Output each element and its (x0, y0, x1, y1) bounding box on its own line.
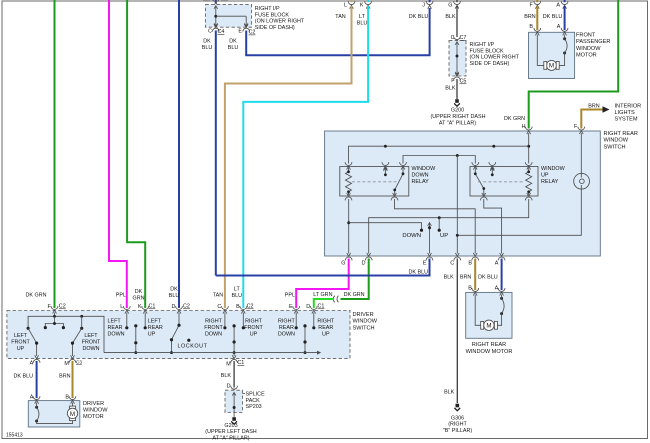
driver switch pin E (293, 306, 300, 314)
fuse1 internal branch wire (216, 15, 246, 17)
svg-text:DK GRN: DK GRN (26, 293, 47, 299)
svg-text:DK GRN: DK GRN (504, 116, 525, 122)
svg-text:DK BLU: DK BLU (409, 270, 429, 276)
rear switch pin A (498, 253, 505, 261)
fuse block 2 name label (470, 42, 520, 67)
svg-text:D: D (227, 383, 231, 389)
driver window motor label (83, 401, 108, 420)
passenger motor M symbol (544, 60, 559, 70)
svg-text:WINDOW: WINDOW (576, 46, 601, 52)
svg-text:LEFT: LEFT (84, 333, 98, 339)
svg-text:RIGHT REAR: RIGHT REAR (604, 131, 638, 137)
wire LT GRN inline connector to driver switch pin D (314, 299, 334, 308)
passenger motor brush arc (563, 37, 566, 40)
svg-text:WINDOW MOTOR: WINDOW MOTOR (466, 349, 513, 355)
svg-text:L: L (344, 2, 347, 8)
up relay coil (526, 168, 532, 196)
svg-text:INTERIOR: INTERIOR (615, 103, 642, 109)
front passenger window motor box (529, 32, 575, 78)
svg-text:C1: C1 (318, 304, 325, 310)
rear switch pin H (525, 127, 532, 135)
front passenger window motor label (576, 32, 610, 58)
svg-text:DOWN: DOWN (412, 173, 429, 179)
driver switch pin D2 / C1 (310, 306, 317, 314)
svg-text:RIGHT I/P: RIGHT I/P (470, 42, 495, 48)
svg-text:PASSENGER: PASSENGER (576, 39, 610, 45)
svg-text:C2: C2 (59, 304, 66, 310)
svg-text:LT GRN: LT GRN (313, 292, 332, 298)
down relay terminal pins top (345, 162, 352, 170)
svg-text:DOWN: DOWN (108, 331, 125, 337)
svg-text:SWITCH: SWITCH (604, 144, 626, 150)
svg-text:LEFT: LEFT (14, 333, 28, 339)
svg-text:UP: UP (440, 233, 448, 239)
svg-text:(ON LOWER RIGHT: (ON LOWER RIGHT (470, 55, 520, 61)
driver switch pin M bottom / C3 (69, 355, 76, 363)
driver motor pin B internal wire (72, 403, 74, 407)
wire PPL from top edge jog to driver switch pin L (109, 0, 127, 308)
svg-text:BRN: BRN (460, 275, 471, 281)
wire BLK fuse2 to ground G200 (456, 79, 458, 99)
svg-text:DOWN: DOWN (278, 331, 295, 337)
arrow to interior lights system (603, 106, 610, 112)
wire UP contact stub (438, 218, 440, 229)
svg-text:AT "A" PILLAR): AT "A" PILLAR) (212, 435, 249, 441)
svg-text:LEFT: LEFT (148, 318, 162, 324)
svg-text:FRONT: FRONT (244, 325, 263, 331)
ground G203 (231, 417, 237, 424)
svg-text:LT: LT (234, 287, 241, 293)
svg-text:WINDOW: WINDOW (83, 408, 108, 414)
rear motor brush arc (500, 297, 503, 300)
svg-text:B: B (468, 285, 472, 291)
svg-text:A: A (495, 261, 499, 267)
svg-text:BLK: BLK (221, 373, 232, 379)
up relay mechanical link (478, 181, 524, 183)
wire lamp bottom to C riser (457, 185, 581, 235)
right rear window motor box (466, 292, 512, 338)
wire BLK from G to fuse2 pin C (456, 6, 458, 37)
wire DK GRN from top edge right side to rear switch pin H (529, 0, 619, 129)
right rear up contact (313, 313, 315, 328)
svg-text:C1: C1 (237, 360, 244, 366)
wire up relay output to pin A (484, 199, 502, 254)
splice pack label (246, 392, 266, 411)
svg-text:C3: C3 (76, 360, 82, 365)
fuse block 1 name label (255, 6, 305, 31)
fuse1 junction (214, 15, 217, 18)
svg-text:A: A (556, 2, 560, 8)
right front switch common (233, 326, 235, 353)
wire DK BLU fuse1 C2 over to top connector J (246, 8, 429, 55)
movable contact from pin E (428, 223, 432, 254)
node H riser to up relay coil (528, 133, 530, 164)
driver window switch box (7, 311, 350, 359)
svg-text:WINDOW: WINDOW (604, 138, 629, 144)
svg-text:BRN: BRN (59, 374, 70, 380)
left front up switch blade to pin A (28, 328, 36, 356)
lockout common bus with end arrow (104, 352, 318, 354)
svg-text:A: A (557, 24, 561, 30)
wire DK GRN from top edge jog to driver switch pin K (127, 0, 145, 308)
svg-text:J: J (422, 2, 425, 8)
svg-text:DOWN: DOWN (402, 233, 421, 239)
svg-text:C1: C1 (149, 304, 156, 310)
svg-text:H: H (522, 124, 526, 130)
svg-text:B: B (468, 261, 472, 267)
ground G306 (454, 404, 460, 411)
wire G riser branch to DOWN contact (349, 223, 422, 229)
left rear down contact (126, 313, 128, 328)
svg-text:G: G (448, 2, 452, 8)
svg-text:SYSTEM: SYSTEM (615, 117, 638, 123)
svg-text:UP: UP (148, 331, 156, 337)
svg-text:LT: LT (359, 14, 366, 20)
svg-text:C: C (450, 261, 454, 267)
svg-text:DK: DK (170, 287, 178, 293)
svg-text:BLK: BLK (444, 390, 455, 396)
passenger motor pin B internal wire (537, 35, 544, 66)
svg-text:UP: UP (17, 346, 25, 352)
lower mini feed bus (45, 316, 63, 327)
fuse1 internal feed wire (216, 6, 246, 27)
driver switch pin C (222, 306, 229, 314)
top connector J (DK BLU from fuse1 C2) (426, 1, 433, 9)
svg-text:REAR: REAR (318, 325, 333, 331)
svg-text:RIGHT I/P: RIGHT I/P (255, 6, 280, 12)
svg-text:M: M (226, 361, 231, 367)
up relay terminal pins bottom (480, 193, 487, 201)
driver switch pin L (123, 306, 130, 314)
down relay armature common (384, 168, 388, 175)
rear motor M symbol (481, 320, 498, 330)
wire DK BLU fuse1 C4 down to E-wire junction (215, 31, 217, 276)
svg-text:DK: DK (135, 289, 143, 295)
svg-text:UP: UP (322, 331, 330, 337)
wire BRN rear switch F to interior lights (581, 110, 602, 129)
right rear window motor label (466, 342, 513, 355)
svg-text:RIGHT REAR: RIGHT REAR (472, 342, 506, 348)
svg-text:M: M (70, 411, 75, 418)
svg-text:DOWN: DOWN (205, 331, 222, 337)
svg-text:DK BLU: DK BLU (478, 275, 498, 281)
svg-text:LIGHTS: LIGHTS (615, 110, 635, 116)
svg-text:GRN: GRN (133, 296, 145, 302)
wire DK BLU rear switch A to rear motor A (501, 259, 503, 291)
svg-text:BLK: BLK (445, 14, 456, 20)
window up relay box (470, 167, 538, 197)
svg-text:BLU: BLU (202, 45, 213, 51)
svg-text:WINDOW: WINDOW (412, 166, 437, 172)
internal bus from down relay coil to H line (349, 146, 529, 163)
svg-text:SWITCH: SWITCH (353, 325, 375, 331)
svg-text:FUSE BLOCK: FUSE BLOCK (255, 12, 290, 18)
svg-text:SPLICE: SPLICE (246, 392, 266, 398)
svg-text:A: A (495, 285, 499, 291)
svg-text:DK: DK (203, 39, 211, 45)
down relay coil (346, 168, 352, 196)
rear motor pin A (498, 288, 505, 296)
up relay terminal pins top (472, 162, 479, 170)
svg-text:BLK: BLK (445, 86, 456, 92)
motor pin A (561, 28, 568, 35)
wire DK GRN rear switch D to inline connector C1 (341, 259, 369, 300)
svg-text:G: G (341, 261, 345, 267)
svg-text:BLU: BLU (357, 21, 368, 27)
svg-text:G203: G203 (224, 423, 237, 429)
svg-text:(ON LOWER RIGHT: (ON LOWER RIGHT (255, 19, 305, 25)
svg-text:B: B (529, 24, 533, 30)
rear switch pin D (365, 253, 372, 261)
right rear down contact (295, 313, 297, 328)
wire BRN driver switch M to driver motor B (72, 361, 74, 398)
down relay mechanical link (352, 181, 397, 183)
motor pin B (534, 28, 541, 35)
svg-text:C: C (208, 29, 212, 35)
fuse2 internal wire (456, 42, 458, 76)
fuse1 pin C / C4 (212, 24, 219, 32)
svg-text:LOCKOUT: LOCKOUT (178, 344, 208, 350)
down relay terminal pins bottom (345, 193, 352, 201)
svg-text:FRONT: FRONT (82, 340, 101, 346)
svg-text:WINDOW: WINDOW (541, 166, 566, 172)
svg-text:RIGHT: RIGHT (205, 318, 222, 324)
svg-text:DK GRN: DK GRN (344, 292, 365, 298)
up relay switch blade (475, 168, 484, 197)
svg-text:BLU: BLU (228, 45, 239, 51)
left rear switch common (135, 326, 137, 353)
wire label DK BLU (C4) (202, 39, 213, 52)
svg-text:FRONT: FRONT (204, 325, 223, 331)
wire G riser: down relay coil to pin G (348, 199, 350, 254)
svg-text:(UPPER LEFT DASH: (UPPER LEFT DASH (205, 429, 257, 435)
svg-text:RELAY: RELAY (541, 179, 559, 185)
svg-text:C2: C2 (247, 304, 254, 310)
driver switch pin D / C2 (lockout feed) (176, 306, 183, 314)
driver motor M symbol (67, 406, 77, 420)
down relay switch blade (395, 168, 403, 197)
wire BRN rear switch B to rear motor B (474, 259, 476, 291)
rear switch pin F (578, 127, 585, 135)
rear switch pin G (345, 253, 352, 261)
driver window motor box (28, 401, 80, 427)
lockout open contact (187, 339, 190, 342)
driver switch pin B / C2 (240, 306, 247, 314)
wire DK BLU from top edge to driver switch pin D (lockout) (178, 0, 180, 308)
rear switch pin E (426, 253, 433, 261)
driver switch pin K / C1 (142, 306, 149, 314)
splice pack SP203 box (225, 390, 243, 412)
left rear up contact (144, 313, 146, 328)
wire down relay output to pin B (395, 199, 476, 254)
right front down contact (224, 313, 226, 328)
lockout switch blade (172, 313, 180, 353)
svg-text:C5: C5 (460, 79, 467, 85)
fuse2 pin F / C5 (454, 73, 461, 81)
svg-text:E: E (289, 304, 293, 310)
svg-text:DK: DK (229, 39, 237, 45)
svg-text:RIGHT: RIGHT (317, 318, 334, 324)
upper feed bus of left front switch (28, 316, 104, 352)
svg-text:WINDOW: WINDOW (353, 319, 378, 325)
splice pack internal wire (232, 393, 236, 418)
rear motor pin B internal wire (475, 295, 481, 326)
svg-text:D: D (362, 261, 366, 267)
svg-text:FRONT: FRONT (11, 340, 30, 346)
wire PPL rear switch G to driver switch pin E (296, 259, 349, 309)
svg-text:TAN: TAN (213, 293, 223, 299)
svg-text:DK BLU: DK BLU (543, 14, 563, 20)
top edge cut-off connector marks (203, 0, 228, 2)
svg-text:DK BLU: DK BLU (14, 374, 34, 380)
svg-text:DRIVER: DRIVER (83, 401, 104, 407)
svg-text:D: D (306, 304, 310, 310)
svg-text:C2: C2 (183, 304, 190, 310)
svg-text:A: A (30, 360, 34, 366)
fuse1 pin E / C2 (243, 24, 250, 32)
svg-text:DRIVER: DRIVER (353, 312, 374, 318)
top connector K with LT BLU wire to driver switch pin B (367, 0, 369, 2)
svg-text:PPL: PPL (116, 293, 126, 299)
svg-text:REAR: REAR (148, 325, 163, 331)
svg-text:BLU: BLU (169, 293, 180, 299)
svg-text:UP: UP (250, 331, 258, 337)
svg-text:E: E (238, 29, 242, 35)
right rear window switch box (325, 131, 601, 256)
svg-text:SP203: SP203 (246, 404, 262, 410)
inline connector C1 (333, 296, 338, 303)
svg-text:RIGHT: RIGHT (278, 318, 295, 324)
top connector A with DK BLU wire to passenger motor pin A (564, 0, 566, 2)
svg-text:AT "A" PILLAR): AT "A" PILLAR) (439, 120, 476, 126)
svg-text:PACK: PACK (246, 398, 261, 404)
svg-text:155413: 155413 (6, 433, 23, 439)
svg-text:M: M (64, 361, 69, 367)
svg-text:(RIGHT: (RIGHT (448, 422, 467, 428)
svg-text:MOTOR: MOTOR (83, 414, 104, 420)
driver motor brush arc (35, 406, 38, 409)
wire up relay coil to UP contact and pin D (369, 199, 529, 254)
svg-text:MOTOR: MOTOR (576, 53, 597, 59)
svg-text:BRN: BRN (588, 104, 599, 110)
rear motor pin B (472, 288, 479, 296)
svg-text:(UPPER RIGHT DASH: (UPPER RIGHT DASH (430, 114, 485, 120)
svg-text:TAN: TAN (335, 14, 345, 20)
node: pin F stub (54, 313, 56, 317)
svg-text:REAR: REAR (279, 325, 294, 331)
svg-text:B: B (236, 304, 240, 310)
svg-text:FUSE BLOCK: FUSE BLOCK (470, 48, 505, 54)
node C riser junction (456, 154, 459, 157)
left front down switch blade to pin M (73, 328, 82, 356)
svg-text:BLK: BLK (444, 275, 455, 281)
window down relay box (340, 167, 409, 197)
driver motor pin A (33, 396, 40, 404)
svg-text:PPL: PPL (285, 293, 295, 299)
fuse block 1: RIGHT I/P FUSE BLOCK (205, 5, 251, 28)
up relay armature common (490, 168, 494, 175)
svg-text:K: K (360, 2, 364, 8)
svg-text:K: K (138, 304, 142, 310)
ground G200 (454, 99, 460, 106)
svg-text:LEFT: LEFT (108, 318, 122, 324)
svg-text:G306: G306 (451, 415, 464, 421)
rear switch pin B (472, 253, 479, 261)
wire down relay contact to up relay contact (403, 156, 475, 164)
top connector G with BLK wire to fuse block 2 (456, 0, 458, 2)
wire BLK rear switch C to ground G306 (456, 259, 458, 404)
svg-text:UP: UP (541, 173, 549, 179)
svg-text:C: C (217, 304, 221, 310)
svg-text:RIGHT: RIGHT (245, 318, 262, 324)
wire BLK driver switch M/C1 to splice pack (233, 361, 235, 388)
left front down contact stub (81, 316, 83, 328)
svg-text:C4: C4 (218, 29, 225, 35)
svg-text:REAR: REAR (108, 325, 123, 331)
svg-text:FRONT: FRONT (576, 32, 596, 38)
svg-text:L: L (120, 304, 123, 310)
svg-text:BRN: BRN (524, 14, 535, 20)
driver switch pin M2 / C1 bottom (to splice) (233, 353, 235, 356)
rear switch pin C (454, 253, 461, 261)
driver switch pin A bottom (33, 355, 40, 363)
svg-text:SIDE OF DASH): SIDE OF DASH) (470, 61, 510, 67)
top connector L with TAN wire to driver switch pin C (351, 0, 353, 2)
svg-text:DK BLU: DK BLU (409, 14, 429, 20)
wire DK BLU driver switch A to driver motor A (36, 361, 38, 398)
driver switch pin F / C2 (51, 306, 58, 314)
svg-text:SIDE OF DASH): SIDE OF DASH) (255, 25, 295, 31)
svg-text:DOWN: DOWN (82, 346, 99, 352)
svg-text:"B" PILLAR): "B" PILLAR) (443, 428, 472, 434)
driver motor pin B (69, 396, 76, 404)
svg-text:RELAY: RELAY (412, 179, 430, 185)
svg-text:G200: G200 (451, 107, 464, 113)
wire C riser down to pin C (456, 156, 458, 254)
svg-text:M: M (549, 63, 554, 70)
connector stub above fuse block 1 (215, 0, 217, 3)
svg-text:D: D (171, 304, 175, 310)
top connector F with BRN wire to passenger motor pin B (536, 0, 538, 2)
wire label DK BLU (C2) (228, 39, 239, 52)
right front up contact (242, 313, 244, 328)
wire DK GRN from top edge to driver switch pin F (54, 0, 56, 308)
right rear switch common (304, 326, 306, 353)
svg-text:BLU: BLU (232, 293, 243, 299)
svg-text:M: M (486, 323, 491, 330)
wire DK BLU rear switch E to fuse1 C4 wire (216, 259, 430, 276)
svg-text:E: E (423, 261, 427, 267)
indicator lamp in rear switch (580, 133, 582, 178)
